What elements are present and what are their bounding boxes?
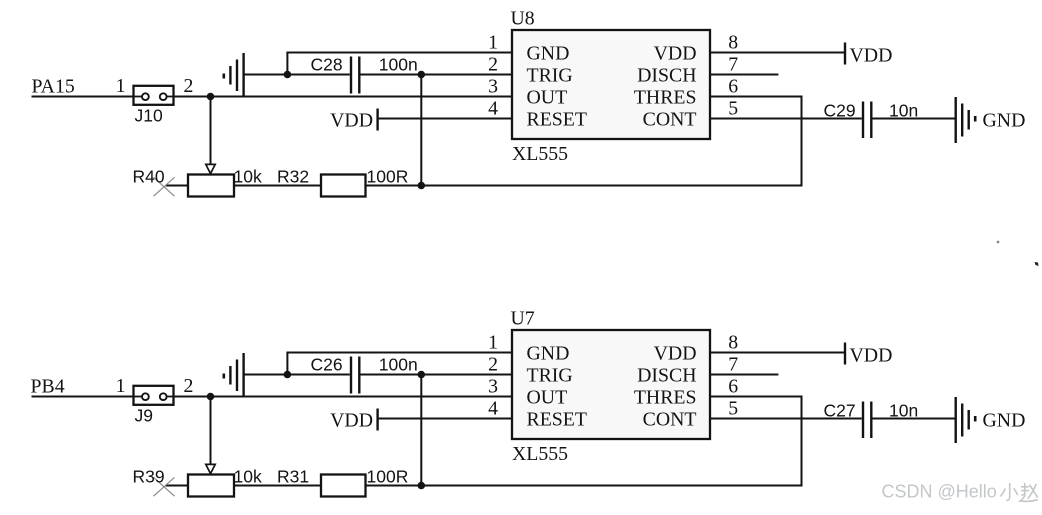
pin number 6 [728, 375, 738, 397]
svg-text:2: 2 [184, 75, 194, 97]
pin name TRIG [527, 65, 573, 87]
pin number 5 [728, 97, 738, 119]
svg-text:10k: 10k [234, 466, 262, 486]
value 10k of R40 [234, 166, 262, 186]
wire riser to U8 pin 1 rail [286, 53, 288, 75]
wire PA15 to J10 pin 1 [32, 96, 134, 98]
ground symbol GND (right) [956, 97, 976, 143]
speck artifact 1 [997, 241, 1000, 244]
value 100n of C28 [379, 55, 418, 75]
no-ERC cross marker [154, 477, 175, 496]
svg-text:GND: GND [983, 109, 1026, 131]
R39 wiper arrow [206, 464, 215, 473]
net label GND [983, 409, 1026, 431]
junction node on bottom rail [418, 182, 426, 190]
svg-text:PA15: PA15 [32, 75, 75, 97]
jumper J10 [134, 86, 174, 105]
designator C28 [311, 55, 343, 75]
svg-text:100n: 100n [379, 55, 418, 75]
svg-text:VDD: VDD [330, 409, 373, 431]
junction node GND/TRIG [284, 371, 292, 379]
wire VDD to U7 pin 4 RESET [379, 418, 512, 420]
J10 pin number 1 [116, 75, 126, 97]
pin name VDD [654, 43, 697, 65]
svg-text:1: 1 [488, 331, 498, 353]
pin name DISCH [637, 65, 696, 87]
svg-text:OUT: OUT [527, 387, 568, 409]
wire U8 pin 6 THRES to riser [710, 96, 803, 98]
op IC U7 XL555 body [512, 330, 710, 439]
power port VDD (pin 8) [845, 43, 892, 67]
pin number 1 [488, 31, 498, 53]
svg-text:DISCH: DISCH [637, 365, 696, 387]
ground symbol (left) [224, 353, 244, 398]
svg-text:GND: GND [983, 409, 1026, 431]
net label PB4 [31, 375, 65, 397]
wire bottom rail to THRES riser [421, 485, 801, 487]
junction node at J9 output [207, 393, 215, 401]
svg-text:4: 4 [488, 397, 498, 419]
designator R40 [133, 166, 165, 186]
R39 left terminal stub [166, 485, 189, 487]
potentiometer R39 body [188, 475, 234, 497]
junction node at C28 right [418, 71, 426, 79]
pin name GND [527, 43, 570, 65]
svg-text:CONT: CONT [643, 409, 697, 431]
svg-text:3: 3 [488, 375, 498, 397]
value 100R of R31 [367, 466, 409, 486]
svg-text:C28: C28 [311, 55, 343, 75]
wire R32 to bottom node [366, 185, 422, 187]
svg-text:U7: U7 [511, 308, 535, 330]
capacitor C27 [863, 402, 871, 439]
wire ground to TRIG node [245, 374, 288, 376]
designator C26 [311, 355, 343, 375]
R40 left terminal stub [166, 185, 189, 187]
svg-text:VDD: VDD [654, 343, 697, 365]
svg-text:THRES: THRES [634, 87, 697, 109]
designator J10 [135, 106, 163, 126]
svg-text:C29: C29 [824, 101, 856, 121]
ground symbol (left) [224, 53, 244, 98]
svg-text:J9: J9 [135, 406, 153, 426]
svg-text:2: 2 [184, 375, 194, 397]
svg-text:3: 3 [488, 75, 498, 97]
pin number 6 [728, 75, 738, 97]
svg-text:10k: 10k [234, 166, 262, 186]
pin name CONT [643, 109, 697, 131]
svg-text:XL555: XL555 [512, 143, 568, 165]
pin name GND [527, 343, 570, 365]
wire node to C26 left plate [287, 374, 349, 376]
svg-text:VDD: VDD [654, 43, 697, 65]
svg-text:100R: 100R [367, 466, 409, 486]
designator U8 [511, 8, 535, 30]
svg-text:4: 4 [488, 97, 498, 119]
wire PB4 to J9 pin 1 [32, 396, 134, 398]
svg-text:R31: R31 [277, 466, 309, 486]
svg-text:R39: R39 [133, 466, 165, 486]
svg-text:U8: U8 [511, 8, 535, 30]
designator R31 [277, 466, 309, 486]
svg-text:100R: 100R [367, 166, 409, 186]
svg-text:XL555: XL555 [512, 443, 568, 465]
svg-text:7: 7 [728, 53, 738, 75]
designator R32 [277, 166, 309, 186]
op IC U8 XL555 body [512, 30, 710, 139]
resistor R32 body [321, 175, 366, 197]
svg-text:RESET: RESET [527, 409, 587, 431]
pin number 7 [728, 53, 738, 75]
pin number 1 [488, 331, 498, 353]
speck artifact 2 [1035, 262, 1039, 266]
ground symbol GND (right) [956, 397, 976, 443]
wire U8 pin 7 DISCH stub [710, 74, 778, 76]
svg-text:VDD: VDD [850, 45, 893, 67]
wire U7 pin 7 DISCH stub [710, 374, 778, 376]
wire node down to R40 wiper [210, 97, 212, 166]
svg-text:C27: C27 [824, 401, 856, 421]
junction node GND/TRIG [284, 71, 292, 79]
pin number 4 [488, 97, 498, 119]
wire bottom rail to THRES riser [421, 185, 801, 187]
resistor R31 body [321, 475, 366, 497]
wire riser up to U8 pin 6 [801, 97, 803, 187]
junction node on bottom rail [418, 482, 426, 490]
wire VDD to U8 pin 4 RESET [379, 118, 512, 120]
power port VDD (pin 8) [845, 343, 892, 367]
wire C26 right plate to U7 pin 2 [361, 374, 513, 376]
wire U7 pin 8 to VDD [710, 352, 845, 354]
designator U7 [511, 308, 535, 330]
svg-text:8: 8 [728, 331, 738, 353]
svg-text:VDD: VDD [850, 345, 893, 367]
pin name THRES [634, 87, 697, 109]
watermark CSDN @Hello [882, 482, 997, 502]
wire J10 pin2 to node [174, 96, 211, 98]
designator R39 [133, 466, 165, 486]
net label GND [983, 109, 1026, 131]
pin number 2 [488, 53, 498, 75]
svg-text:6: 6 [728, 75, 738, 97]
pin name OUT [527, 387, 568, 409]
vertical wire C28 node to bottom node [420, 75, 422, 186]
net label PA15 [32, 75, 75, 97]
wire riser up to U7 pin 6 [801, 397, 803, 487]
designator C27 [824, 401, 856, 421]
designator J9 [135, 406, 153, 426]
pin name CONT [643, 409, 697, 431]
J9 pin number 2 [184, 375, 194, 397]
pin name DISCH [637, 365, 696, 387]
pin number 5 [728, 397, 738, 419]
wire R40 to R32 [234, 185, 321, 187]
wire J9 pin2 to node [174, 396, 211, 398]
svg-text:THRES: THRES [634, 387, 697, 409]
power port VDD (RESET) [330, 109, 377, 132]
svg-text:5: 5 [728, 97, 738, 119]
value 100n of C26 [379, 355, 418, 375]
J10 pin number 2 [184, 75, 194, 97]
wire node down to R39 wiper [210, 397, 212, 466]
power port VDD (RESET) [330, 409, 377, 432]
svg-text:100n: 100n [379, 355, 418, 375]
svg-text:2: 2 [488, 353, 498, 375]
wire C29 to ground [873, 118, 955, 120]
wire node to U8 pin 3 OUT [211, 96, 513, 98]
value 100R of R32 [367, 166, 409, 186]
no-ERC cross marker [154, 177, 175, 196]
wire GND rail to U8 pin 1 [286, 52, 512, 54]
part number XL555 [512, 443, 568, 465]
potentiometer R40 body [188, 175, 234, 197]
svg-text:1: 1 [488, 31, 498, 53]
wire node to C28 left plate [287, 74, 349, 76]
wire R31 to bottom node [366, 485, 422, 487]
svg-text:R32: R32 [277, 166, 309, 186]
svg-text:OUT: OUT [527, 87, 568, 109]
value 10k of R39 [234, 466, 262, 486]
pin number 2 [488, 353, 498, 375]
wire riser to U7 pin 1 rail [286, 353, 288, 375]
pin name THRES [634, 387, 697, 409]
junction node at C26 right [418, 371, 426, 379]
svg-text:TRIG: TRIG [527, 365, 573, 387]
svg-text:VDD: VDD [330, 109, 373, 131]
R40 wiper arrow [206, 164, 215, 173]
wire C27 to ground [873, 418, 955, 420]
wire U8 pin 5 CONT to C29 [710, 118, 862, 120]
svg-text:CONT: CONT [643, 109, 697, 131]
pin name TRIG [527, 365, 573, 387]
part number XL555 [512, 143, 568, 165]
svg-text:8: 8 [728, 31, 738, 53]
pin number 8 [728, 331, 738, 353]
capacitor C26 [351, 357, 359, 394]
svg-text:GND: GND [527, 343, 570, 365]
svg-text:5: 5 [728, 397, 738, 419]
svg-text:R40: R40 [133, 166, 165, 186]
wire ground to TRIG node [245, 74, 288, 76]
watermark CJK glyphs [1000, 483, 1038, 501]
pin name VDD [654, 343, 697, 365]
wire U7 pin 5 CONT to C27 [710, 418, 862, 420]
svg-text:J10: J10 [135, 106, 163, 126]
pin number 3 [488, 75, 498, 97]
pin number 7 [728, 353, 738, 375]
svg-text:GND: GND [527, 43, 570, 65]
designator C29 [824, 101, 856, 121]
svg-text:DISCH: DISCH [637, 65, 696, 87]
wire R39 to R31 [234, 485, 321, 487]
pin name OUT [527, 87, 568, 109]
wire node to U7 pin 3 OUT [211, 396, 513, 398]
svg-text:6: 6 [728, 375, 738, 397]
svg-text:7: 7 [728, 353, 738, 375]
wire C28 right plate to U8 pin 2 [361, 74, 513, 76]
pin number 3 [488, 375, 498, 397]
svg-text:PB4: PB4 [31, 375, 65, 397]
vertical wire C26 node to bottom node [420, 375, 422, 486]
value 10n of C27 [889, 401, 918, 421]
pin number 4 [488, 397, 498, 419]
svg-text:C26: C26 [311, 355, 343, 375]
svg-text:1: 1 [116, 75, 126, 97]
pin number 8 [728, 31, 738, 53]
svg-text:TRIG: TRIG [527, 65, 573, 87]
svg-text:1: 1 [116, 375, 126, 397]
svg-text:2: 2 [488, 53, 498, 75]
capacitor C28 [351, 57, 359, 94]
wire GND rail to U7 pin 1 [286, 352, 512, 354]
svg-text:RESET: RESET [527, 109, 587, 131]
wire U8 pin 8 to VDD [710, 52, 845, 54]
wire U7 pin 6 THRES to riser [710, 396, 803, 398]
J9 pin number 1 [116, 375, 126, 397]
jumper J9 [134, 386, 174, 405]
svg-text:CSDN @Hello: CSDN @Hello [882, 482, 997, 502]
junction node at J10 output [207, 93, 215, 101]
pin name RESET [527, 109, 587, 131]
pin name RESET [527, 409, 587, 431]
capacitor C29 [863, 102, 871, 139]
value 10n of C29 [889, 101, 918, 121]
